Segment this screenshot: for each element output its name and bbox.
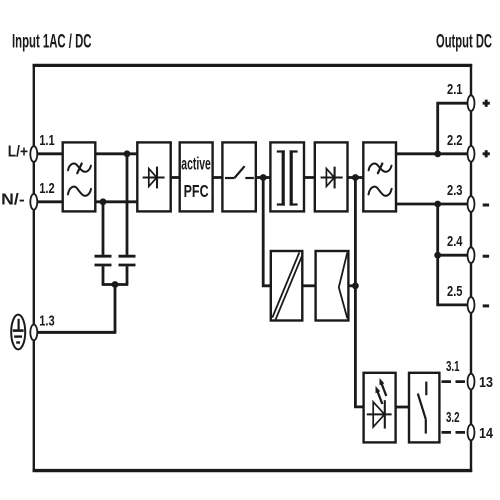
svg-text:2.3: 2.3 bbox=[447, 183, 463, 199]
svg-text:Input 1AC / DC: Input 1AC / DC bbox=[12, 31, 92, 52]
svg-text:2.1: 2.1 bbox=[447, 82, 463, 98]
svg-text:2.4: 2.4 bbox=[447, 234, 463, 250]
svg-text:1.1: 1.1 bbox=[39, 133, 55, 149]
svg-text:1.3: 1.3 bbox=[39, 313, 55, 329]
svg-text:3.1: 3.1 bbox=[446, 359, 460, 375]
svg-text:3.2: 3.2 bbox=[446, 410, 460, 426]
svg-text:L/+: L/+ bbox=[8, 144, 28, 161]
svg-text:Output DC: Output DC bbox=[436, 31, 492, 52]
svg-text:2.5: 2.5 bbox=[447, 284, 463, 300]
svg-text:1.2: 1.2 bbox=[39, 181, 55, 197]
svg-text:active: active bbox=[181, 154, 211, 174]
svg-text:2.2: 2.2 bbox=[447, 133, 463, 149]
svg-text:PFC: PFC bbox=[184, 181, 209, 201]
svg-text:14: 14 bbox=[479, 425, 494, 442]
svg-text:13: 13 bbox=[479, 374, 493, 391]
svg-text:N/-: N/- bbox=[1, 192, 25, 209]
